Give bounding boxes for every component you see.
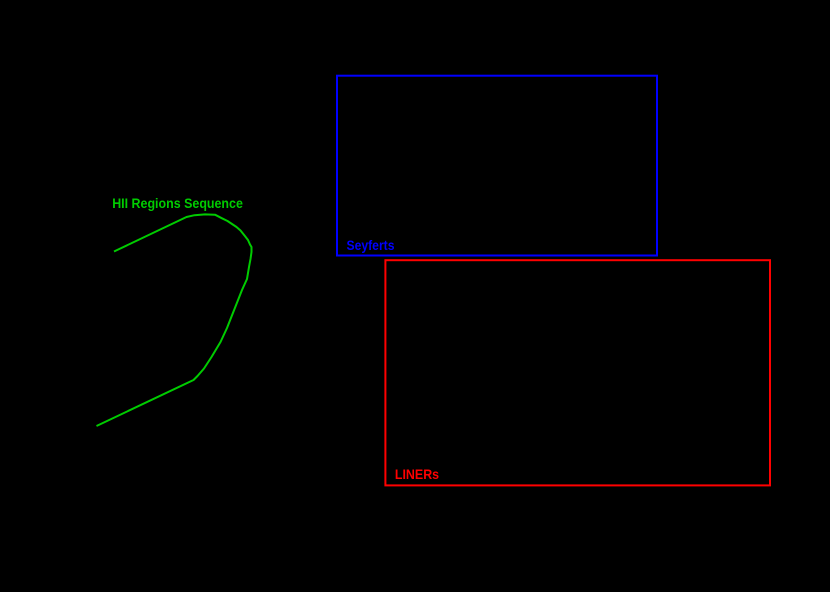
LINERs box (red) bbox=[385, 260, 770, 485]
svg-text:HII Regions Sequence: HII Regions Sequence bbox=[112, 195, 243, 211]
svg-text:LINERs: LINERs bbox=[395, 466, 439, 482]
Seyferts box (blue) bbox=[337, 76, 657, 256]
HII regions sequence curve (green) bbox=[97, 214, 252, 426]
svg-text:Seyferts: Seyferts bbox=[347, 237, 395, 253]
